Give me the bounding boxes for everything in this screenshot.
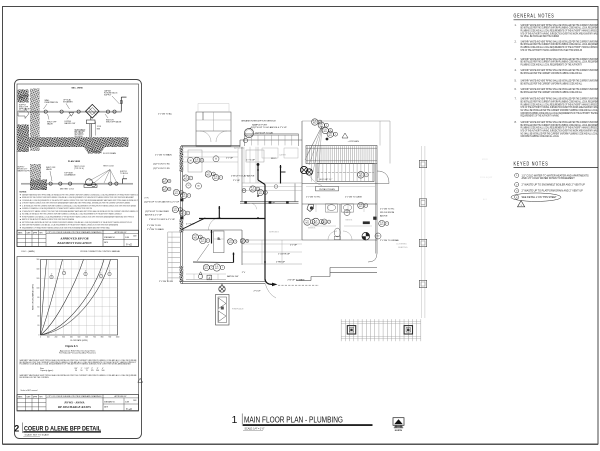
svg-text:BE INSTALLED PER THE CURREN: BE INSTALLED PER THE CURREN xyxy=(20,376,50,379)
svg-text:WC2: WC2 xyxy=(380,224,384,226)
svg-text:400: 400 xyxy=(70,337,73,339)
svg-text:75: 75 xyxy=(86,370,88,372)
svg-text:MAIN FLOOR PLAN - PLUMBING: MAIN FLOOR PLAN - PLUMBING xyxy=(244,415,343,425)
svg-text:BASEMENT ISOLATION: BASEMENT ISOLATION xyxy=(56,241,92,245)
svg-text:WC2: WC2 xyxy=(207,175,211,177)
svg-text:700: 700 xyxy=(93,337,96,339)
svg-text:For Reduced Pressure Backflow: For Reduced Pressure Backflow Preventers xyxy=(59,352,96,355)
svg-text:900: 900 xyxy=(108,337,111,339)
svg-text:12: 12 xyxy=(188,185,190,187)
svg-text:2: 2 xyxy=(365,205,366,207)
svg-text:2: 2 xyxy=(190,178,191,180)
svg-text:2"HW UP: 2"HW UP xyxy=(276,262,286,264)
svg-text:2"V UP: 2"V UP xyxy=(233,180,241,182)
svg-text:(2)2"V DN TO RD: (2)2"V DN TO RD xyxy=(153,164,170,166)
svg-text:8.: 8. xyxy=(515,121,517,124)
svg-text:SANITARY WASTE AND VENT PIPING: SANITARY WASTE AND VENT PIPING SHALL BE … xyxy=(22,193,139,196)
svg-text:P-11: P-11 xyxy=(175,191,178,193)
svg-text:100: 100 xyxy=(36,287,39,289)
svg-text:2"V DN TO FD: 2"V DN TO FD xyxy=(159,281,173,283)
svg-text:P-11: P-11 xyxy=(181,212,184,214)
svg-text:SEE DETAIL 2 ON THIS SHEET: SEE DETAIL 2 ON THIS SHEET xyxy=(522,196,558,199)
svg-text:REV: REV xyxy=(40,397,43,399)
svg-text:140: 140 xyxy=(36,269,39,271)
svg-text:2"V UP: 2"V UP xyxy=(290,245,298,247)
svg-text:WC2: WC2 xyxy=(251,190,255,192)
svg-text:WC2: WC2 xyxy=(359,176,363,178)
svg-text:P-11: P-11 xyxy=(314,220,317,222)
svg-text:3.: 3. xyxy=(515,58,517,61)
svg-text:2"V DN TO HC: 2"V DN TO HC xyxy=(306,197,321,199)
svg-text:33: 33 xyxy=(215,159,217,161)
svg-text:(2)2"W UP TO LAV: (2)2"W UP TO LAV xyxy=(255,131,274,134)
svg-text:FLOW RATE (GPM): FLOW RATE (GPM) xyxy=(71,339,88,342)
svg-text:2"V: 2"V xyxy=(242,272,246,274)
svg-text:P-11: P-11 xyxy=(229,240,232,242)
svg-text:2"V DN TO MAIN: 2"V DN TO MAIN xyxy=(147,228,164,231)
svg-text:2: 2 xyxy=(220,177,221,179)
svg-text:SEATING: SEATING xyxy=(398,246,408,249)
svg-text:COVERED: COVERED xyxy=(396,244,407,246)
svg-text:WC2: WC2 xyxy=(181,214,185,216)
svg-text:WC2: WC2 xyxy=(201,241,205,243)
svg-text:2: 2 xyxy=(51,277,52,279)
svg-text:P-11: P-11 xyxy=(313,121,316,123)
svg-text:BATCH DW: BATCH DW xyxy=(227,275,239,278)
svg-text:WATER SUPPLY: WATER SUPPLY xyxy=(18,170,33,173)
svg-text:2: 2 xyxy=(265,192,266,194)
svg-text:VALVE: VALVE xyxy=(47,122,54,125)
svg-text:WC2: WC2 xyxy=(323,222,327,224)
svg-text:RENT UNIFORM PLUMBING CODE AND: RENT UNIFORM PLUMBING CODE AND ALL LOCAL… xyxy=(22,224,119,227)
svg-text:REQUIRED: REQUIRED xyxy=(75,136,84,138)
svg-text:WC2: WC2 xyxy=(215,268,219,270)
svg-text:5.: 5. xyxy=(515,79,517,82)
svg-text:300: 300 xyxy=(62,337,65,339)
svg-text:F THE AUTHORITY HAVING JURISDI: F THE AUTHORITY HAVING JURISDICTION OVER… xyxy=(22,210,138,213)
svg-text:PIZZA KITCHEN: PIZZA KITCHEN xyxy=(319,188,335,191)
svg-text:SEC. VIEW: SEC. VIEW xyxy=(71,88,83,90)
svg-text:2: 2 xyxy=(207,240,208,242)
svg-text:2"V DN TO LAV/K: 2"V DN TO LAV/K xyxy=(345,196,363,199)
svg-text:300: 300 xyxy=(96,370,99,372)
svg-text:LUMBING CODE AND ALL LOCAL REQ: LUMBING CODE AND ALL LOCAL REQUIREMENTS … xyxy=(22,207,92,210)
svg-text:CROSS CONNECTION CONTROL MANUA: CROSS CONNECTION CONTROL MANUAL xyxy=(80,250,121,253)
svg-text:SCALE: NOT TO SCALE: SCALE: NOT TO SCALE xyxy=(25,434,50,437)
svg-text:2: 2 xyxy=(201,160,202,162)
svg-text:SUPPLY: SUPPLY xyxy=(104,94,112,96)
svg-text:PENETRATION: PENETRATION xyxy=(45,101,59,104)
svg-text:MEN'S: MEN'S xyxy=(346,220,353,222)
svg-text:VALVE: VALVE xyxy=(46,168,53,171)
svg-text:REQUIREMENTS OF THE AUTHORITY: REQUIREMENTS OF THE AUTHORITY HAVING xyxy=(521,115,560,118)
svg-text:2"V UP: 2"V UP xyxy=(226,158,234,160)
svg-text:MIN TEST COCK: MIN TEST COCK xyxy=(60,188,75,190)
svg-text:P-11: P-11 xyxy=(194,236,197,238)
svg-text:(2)2"W UP TO SHOWER: (2)2"W UP TO SHOWER xyxy=(145,211,169,213)
svg-text:2"W UP TO MAIN: 2"W UP TO MAIN xyxy=(287,278,304,281)
svg-text:NORTH: NORTH xyxy=(395,430,403,432)
svg-text:ABOVE: ABOVE xyxy=(380,215,388,218)
svg-text:P-11: P-11 xyxy=(324,129,327,131)
svg-text:WC2: WC2 xyxy=(182,196,186,198)
svg-text:80: 80 xyxy=(37,297,39,299)
svg-text:PLAN VIEW: PLAN VIEW xyxy=(68,160,81,163)
svg-text:CITY OF COEUR D'ALENE UTILITIE: CITY OF COEUR D'ALENE UTILITIES STANDARD… xyxy=(48,231,103,234)
svg-text:WC2: WC2 xyxy=(229,242,233,244)
svg-text:P-11: P-11 xyxy=(174,208,177,210)
svg-text:P-11: P-11 xyxy=(215,266,218,268)
svg-text:200: 200 xyxy=(55,337,58,339)
svg-text:NOTES:: NOTES: xyxy=(20,192,28,194)
svg-text:IFORM PLUMBING CODE AND ALL LO: IFORM PLUMBING CODE AND ALL LOCAL REQUIR… xyxy=(22,215,135,218)
svg-text:P-11: P-11 xyxy=(207,173,210,175)
svg-text:120: 120 xyxy=(36,278,39,280)
svg-text:LL BE INSTALLED PER THE CURREN: LL BE INSTALLED PER THE CURRENT UNIFORM … xyxy=(22,204,137,207)
svg-text:REQUIREMENTS OF THE AUTHORITY: REQUIREMENTS OF THE AUTHORITY HAVING JUR… xyxy=(22,226,110,229)
svg-text:P-11: P-11 xyxy=(163,188,166,190)
svg-text:JUNE: JUNE xyxy=(125,402,129,404)
svg-text:125: 125 xyxy=(91,370,94,372)
svg-text:2: 2 xyxy=(169,181,170,183)
svg-text:CODE AND ALL LOCAL REQUIREMENT: CODE AND ALL LOCAL REQUIREMENTS OF THE A… xyxy=(22,199,139,202)
svg-text:WC2: WC2 xyxy=(163,190,167,192)
svg-text:0: 0 xyxy=(38,335,39,337)
svg-text:2"V DN TO AC: 2"V DN TO AC xyxy=(158,113,172,116)
svg-text:GREASE INTERCEPTOR SERVICE: GREASE INTERCEPTOR SERVICE xyxy=(241,120,276,123)
svg-text:2"V DN TO URINAL: 2"V DN TO URINAL xyxy=(380,239,400,242)
svg-text:(TYP): (TYP) xyxy=(144,197,149,199)
svg-text:WC2: WC2 xyxy=(205,268,209,270)
svg-text:P-11: P-11 xyxy=(359,204,362,206)
svg-text:2: 2 xyxy=(188,195,189,197)
svg-text:P-11: P-11 xyxy=(241,240,244,242)
svg-text:(TYP OF 4): (TYP OF 4) xyxy=(74,168,84,170)
svg-text:2: 2 xyxy=(335,134,336,136)
svg-text:WC2: WC2 xyxy=(314,222,318,224)
svg-text:30: 30 xyxy=(75,370,77,372)
svg-text:CLEARANCE: CLEARANCE xyxy=(64,174,76,177)
svg-text:PNWS - AWWA: PNWS - AWWA xyxy=(64,401,84,405)
svg-text:BE INSTALLED PER THE CURRENT U: BE INSTALLED PER THE CURRENT UNIFORM PLU… xyxy=(521,72,583,75)
svg-text:2: 2 xyxy=(247,241,248,243)
svg-text:50: 50 xyxy=(80,370,82,372)
svg-text:WC2: WC2 xyxy=(195,161,199,163)
svg-text:2.: 2. xyxy=(515,40,517,43)
svg-text:2: 2 xyxy=(211,267,212,269)
svg-text:WC2: WC2 xyxy=(329,135,333,137)
svg-text:WC2: WC2 xyxy=(214,178,218,180)
svg-text:Capacity (gpm):: Capacity (gpm): xyxy=(40,369,54,372)
svg-text:2"V UP: 2"V UP xyxy=(268,203,276,205)
svg-text:0: 0 xyxy=(40,337,41,339)
svg-text:WC2: WC2 xyxy=(163,182,167,184)
svg-text:WC2: WC2 xyxy=(306,222,310,224)
svg-text:ING SHALL BE INSTALLED PER THE: ING SHALL BE INSTALLED PER THE CURRENT U… xyxy=(22,213,123,216)
svg-text:500: 500 xyxy=(102,370,105,372)
svg-text:2"W UP TO LAV ABOVE: 2"W UP TO LAV ABOVE xyxy=(231,175,255,178)
svg-text:2: 2 xyxy=(366,175,367,177)
svg-text:2: 2 xyxy=(386,223,387,225)
svg-text:20: 20 xyxy=(37,325,39,327)
svg-text:P-11: P-11 xyxy=(184,177,187,179)
svg-text:ABOVE & 2"V UP: ABOVE & 2"V UP xyxy=(145,214,163,217)
svg-text:WC2: WC2 xyxy=(324,131,328,133)
svg-text:B.: B. xyxy=(218,237,221,241)
svg-text:2"V DN TO FD: 2"V DN TO FD xyxy=(147,225,161,227)
svg-text:NSTALLED PER THE CURRENT UNIFO: NSTALLED PER THE CURRENT UNIFORM PLUMBIN… xyxy=(22,196,135,199)
svg-text:2: 2 xyxy=(101,276,102,278)
svg-text:AND 1.5" COLD WATER DOWN TO BA: AND 1.5" COLD WATER DOWN TO BASEMENT xyxy=(522,177,576,180)
svg-text:WC2: WC2 xyxy=(241,242,245,244)
svg-text:2008: 2008 xyxy=(133,236,137,238)
svg-text:1: 1 xyxy=(232,414,238,426)
svg-text:SCALE: 1/4" = 1'-0": SCALE: 1/4" = 1'-0" xyxy=(245,427,265,430)
svg-text:SHUTOFF VALVE: SHUTOFF VALVE xyxy=(106,120,122,123)
svg-text:2"V UP: 2"V UP xyxy=(254,291,262,293)
svg-text:2: 2 xyxy=(329,221,330,223)
svg-text:2"V DN TO HC: 2"V DN TO HC xyxy=(380,209,395,211)
svg-text:2: 2 xyxy=(222,267,223,269)
svg-text:2" WASTE UP TO SNOWMELT BOILER: 2" WASTE UP TO SNOWMELT BOILER AND 2" VE… xyxy=(522,183,586,186)
svg-text:WD DN FROM: WD DN FROM xyxy=(380,212,394,214)
svg-text:WMN'S: WMN'S xyxy=(308,228,316,230)
svg-text:WCO: WCO xyxy=(271,158,277,160)
svg-text:2: 2 xyxy=(85,274,86,276)
svg-text:2"W UP TO MOP & 2"V UP: 2"W UP TO MOP & 2"V UP xyxy=(149,219,176,221)
svg-text:APPROVED RP FOR: APPROVED RP FOR xyxy=(59,236,88,240)
svg-text:600: 600 xyxy=(85,337,88,339)
svg-text:CATER: CATER xyxy=(279,153,286,156)
svg-text:P-11: P-11 xyxy=(251,188,254,190)
svg-text:V-42: V-42 xyxy=(126,407,132,411)
svg-text:P-11: P-11 xyxy=(195,159,198,161)
svg-text:WC2: WC2 xyxy=(359,206,363,208)
svg-text:(BFP) VALVE: (BFP) VALVE xyxy=(19,108,31,111)
svg-text:(2)2"W UP TO HC ABOVE & 2"V UP: (2)2"W UP TO HC ABOVE & 2"V UP xyxy=(252,126,287,129)
svg-text:P-11: P-11 xyxy=(182,194,185,196)
svg-text:APPROVED BY: APPROVED BY xyxy=(114,231,127,234)
svg-text:POOL EQUIP: POOL EQUIP xyxy=(480,177,493,179)
svg-text:P-11: P-11 xyxy=(323,220,326,222)
svg-text:NTS OF THE AUTHORITY HAVING JU: NTS OF THE AUTHORITY HAVING JURISDICTION… xyxy=(521,49,583,52)
svg-text:100: 100 xyxy=(47,337,50,339)
svg-text:UTHORITY HAVING JURISDICTION O: UTHORITY HAVING JURISDICTION OVER THIS W… xyxy=(22,202,130,205)
svg-text:Scale in BFP manual: Scale in BFP manual xyxy=(21,390,38,392)
svg-text:800: 800 xyxy=(101,337,104,339)
svg-text:RATE OF DISCHARGE (GPM): RATE OF DISCHARGE (GPM) xyxy=(32,284,35,310)
svg-text:P-11: P-11 xyxy=(201,239,204,241)
svg-text:40: 40 xyxy=(37,316,39,318)
svg-text:60: 60 xyxy=(37,306,39,308)
svg-text:7.: 7. xyxy=(515,98,517,101)
svg-text:P-11: P-11 xyxy=(329,133,332,135)
svg-text:6.: 6. xyxy=(515,88,517,91)
svg-text:WC2: WC2 xyxy=(259,193,263,195)
svg-text:REV: REV xyxy=(40,232,43,234)
svg-text:FIREPLACE: FIREPLACE xyxy=(232,308,244,311)
svg-text:JUNE: JUNE xyxy=(125,237,129,239)
svg-text:1"CWTR UP: 1"CWTR UP xyxy=(278,254,291,256)
svg-text:2: 2 xyxy=(187,213,188,215)
svg-text:Figure 6-5: Figure 6-5 xyxy=(65,345,78,348)
svg-text:500: 500 xyxy=(78,337,81,339)
svg-text:P-11: P-11 xyxy=(259,191,262,193)
svg-text:TEST COCK: TEST COCK xyxy=(103,166,115,168)
svg-text:2"V DN TO MAIN: 2"V DN TO MAIN xyxy=(155,154,172,157)
svg-text:STRAINER: STRAINER xyxy=(63,101,73,104)
svg-text:(2)2"V DN TO RD: (2)2"V DN TO RD xyxy=(153,168,170,170)
svg-text:UNIFORM PLUMBING CODE AND ALL: UNIFORM PLUMBING CODE AND ALL LOCAL xyxy=(521,135,560,138)
svg-text:P-11: P-11 xyxy=(205,266,208,268)
svg-text:RP DISCHARGE RATES: RP DISCHARGE RATES xyxy=(58,405,91,409)
svg-text:MENTS OF THE AUTHORITY HAVING: MENTS OF THE AUTHORITY HAVING JURISDICTI… xyxy=(22,218,75,221)
svg-text:2: 2 xyxy=(326,125,327,127)
svg-text:2: 2 xyxy=(14,423,19,433)
svg-text:1000: 1000 xyxy=(116,337,120,339)
svg-text:P-11: P-11 xyxy=(380,222,383,224)
svg-text:WC2: WC2 xyxy=(174,210,178,212)
svg-text:KEYED NOTES: KEYED NOTES xyxy=(514,161,549,167)
svg-text:160: 160 xyxy=(36,259,39,261)
svg-text:KITCHEN: KITCHEN xyxy=(234,148,244,150)
svg-text:ENT PIPING SHALL BE INSTALLED: ENT PIPING SHALL BE INSTALLED PER THE CU… xyxy=(22,221,133,224)
svg-text:FIG 1 : (MAIN): FIG 1 : (MAIN) xyxy=(22,250,35,253)
svg-text:P-11: P-11 xyxy=(214,176,217,178)
svg-text:1.: 1. xyxy=(515,24,517,27)
svg-text:WC2: WC2 xyxy=(184,179,188,181)
svg-text:2: 2 xyxy=(169,189,170,191)
svg-text:CITY OF COEUR D'ALENE UTILITIE: CITY OF COEUR D'ALENE UTILITIES STANDARD… xyxy=(48,395,103,398)
svg-text:SERVING: SERVING xyxy=(269,232,279,234)
svg-text:WC2: WC2 xyxy=(194,238,198,240)
svg-text:V-42: V-42 xyxy=(126,242,132,246)
svg-text:2: 2 xyxy=(109,274,110,276)
svg-text:NG SHALL BE INSTALLED PER THE: NG SHALL BE INSTALLED PER THE CURREN xyxy=(521,35,560,38)
svg-text:2008: 2008 xyxy=(133,400,137,402)
svg-text:BACKFLOW: BACKFLOW xyxy=(65,122,76,125)
svg-text:TO BLDG: TO BLDG xyxy=(120,173,128,175)
svg-text:BE INSTALLED PER THE CURRENT U: BE INSTALLED PER THE CURRENT UNIFORM PLU… xyxy=(521,91,583,94)
svg-text:P-11: P-11 xyxy=(359,174,362,176)
svg-text:MAIN: MAIN xyxy=(19,97,24,100)
svg-text:34: 34 xyxy=(190,160,192,162)
svg-text:+ KITCHEN: + KITCHEN xyxy=(348,141,360,143)
svg-text:P-11: P-11 xyxy=(306,220,309,222)
svg-text:FLOOR DRAIN: FLOOR DRAIN xyxy=(103,152,117,155)
svg-text:APPROVED BY: APPROVED BY xyxy=(114,395,127,398)
svg-text:2: 2 xyxy=(235,241,236,243)
svg-text:WALL: WALL xyxy=(42,187,47,190)
svg-text:4.: 4. xyxy=(515,69,517,72)
svg-text:2: 2 xyxy=(64,273,65,275)
svg-text:P-11: P-11 xyxy=(320,124,323,126)
svg-text:PLUMBING CODE AND ALL LOCAL RE: PLUMBING CODE AND ALL LOCAL REQUIREMENTS… xyxy=(20,363,132,366)
svg-text:GENERAL NOTES: GENERAL NOTES xyxy=(514,14,555,20)
svg-text:PLUMBING CODE AND ALL LOCAL RE: PLUMBING CODE AND ALL LOCAL REQUIREMENTS… xyxy=(521,64,583,67)
svg-text:P-11: P-11 xyxy=(163,180,166,182)
svg-text:STOR: STOR xyxy=(482,159,488,161)
svg-text:2" WASTE UP TO PLATFORM DRAIN: 2" WASTE UP TO PLATFORM DRAIN AND 2" VEN… xyxy=(522,190,584,193)
svg-text:BE INSTALLED PER THE CURRENT U: BE INSTALLED PER THE CURRENT UNIFORM PLU… xyxy=(521,82,583,85)
svg-text:(2)2"W UP TO WC ABOVE & 2"V UP: (2)2"W UP TO WC ABOVE & 2"V UP xyxy=(144,200,180,203)
svg-text:WC2: WC2 xyxy=(175,193,179,195)
svg-text:WC2: WC2 xyxy=(313,123,317,125)
